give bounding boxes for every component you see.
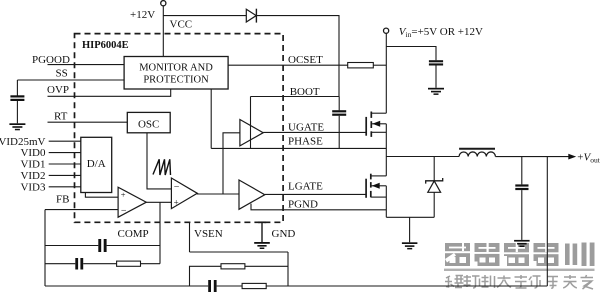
wire OCSET left [228, 64, 348, 66]
wire monitor to phase vertical [210, 89, 212, 148]
wire VSEN vertical [189, 222, 191, 252]
svg-text:FB: FB [56, 194, 69, 206]
svg-text:OCSET: OCSET [288, 54, 323, 66]
svg-text:−: − [121, 205, 127, 216]
wire Vout sense vertical [546, 157, 548, 286]
wire switch node horizontal [386, 156, 459, 158]
wire SS [17, 79, 124, 81]
wire D/A output [85, 193, 118, 198]
resistor OCSET [348, 63, 374, 68]
wire output [495, 156, 569, 158]
svg-text:−: − [174, 182, 180, 193]
resistor bottom line [242, 283, 266, 288]
wire RT [48, 121, 128, 123]
watermark underline [444, 269, 595, 271]
wire lower branch right [245, 265, 288, 267]
capacitor comp branch2 [75, 258, 83, 270]
svg-text:LGATE: LGATE [288, 180, 323, 192]
buffer UGATE driver [240, 120, 263, 146]
block OSC [127, 112, 170, 132]
wire comp branch2 right [141, 263, 161, 265]
ground output cap [514, 240, 530, 247]
ground GND pin [254, 222, 270, 249]
svg-text:VCC: VCC [170, 19, 193, 31]
capacitor bootstrap [332, 97, 346, 149]
diode D2 schottky [426, 157, 443, 218]
inductor L1 [459, 149, 495, 157]
svg-text:MONITOR AND: MONITOR AND [139, 63, 213, 74]
watermark line2 [445, 275, 593, 289]
svg-text:RT: RT [54, 111, 68, 123]
wire OVP [48, 89, 171, 96]
wire OCSET right [373, 64, 386, 66]
wire switch node vertical [385, 124, 387, 176]
svg-text:VSEN: VSEN [194, 228, 223, 240]
svg-text:PHASE: PHASE [288, 136, 323, 148]
capacitor output [515, 157, 528, 240]
wire FB [45, 209, 118, 211]
ground soft-start [9, 123, 25, 130]
resistor comp branch2 [117, 261, 141, 266]
transistor Q2 lower MOSFET [366, 174, 386, 198]
svg-text:+: + [121, 189, 126, 199]
svg-text:VID2: VID2 [20, 170, 45, 182]
wire UGATE [263, 131, 366, 133]
svg-text:UGATE: UGATE [288, 122, 324, 134]
wire lower branch left [190, 266, 222, 286]
svg-text:D/A: D/A [87, 158, 106, 170]
wire PGOOD [48, 64, 125, 66]
arrow output [568, 154, 576, 160]
wire VID1 [49, 163, 81, 165]
wire comp branch1 right [107, 245, 160, 247]
wire comp branch2 mid [83, 263, 116, 265]
resistor sense branch [221, 264, 245, 269]
svg-text:GND: GND [272, 228, 296, 240]
block MONITOR AND PROTECTION [124, 57, 228, 90]
capacitor bottom line [208, 280, 216, 292]
wire to upper driver [223, 133, 240, 194]
svg-text:VID25mV: VID25mV [0, 136, 46, 148]
wire bottom line right [266, 285, 547, 287]
svg-text:OSC: OSC [138, 119, 159, 131]
wire comp branch1 left [45, 245, 98, 247]
wire PWM output [197, 193, 239, 195]
svg-text:PGND: PGND [288, 199, 318, 211]
svg-text:+: + [174, 198, 179, 208]
ground power stage [402, 217, 418, 249]
wire PHASE [211, 147, 386, 149]
wire BOOT vertical through driver [250, 97, 252, 149]
wire diode to boot corner [256, 16, 339, 97]
wire LGATE [265, 193, 366, 195]
wire VID2 [49, 174, 81, 176]
terminal +12V [161, 1, 166, 6]
wire VSEN upper branch [190, 251, 289, 253]
terminal Vin [384, 28, 389, 33]
wire VID0 [49, 152, 81, 154]
watermark logo line1 [445, 243, 595, 267]
svg-text:SS: SS [56, 68, 68, 80]
IC dashed boundary HIP6004E [75, 34, 284, 223]
capacitor Vin decoupling [429, 60, 443, 88]
op-amp error amplifier [118, 187, 146, 217]
wire Vin vertical [385, 33, 387, 113]
wire bottom line left [45, 285, 208, 287]
wire +12V to diode [163, 15, 246, 17]
block D/A [81, 137, 112, 192]
svg-text:COMP: COMP [118, 228, 149, 240]
ground Vin cap [428, 88, 444, 95]
wire bottom rail [386, 216, 434, 218]
sawtooth waveform symbol [153, 159, 171, 175]
svg-text:VID3: VID3 [20, 181, 46, 193]
svg-text:OVP: OVP [47, 84, 69, 96]
capacitor soft-start [10, 80, 24, 123]
wire COMP vertical [159, 202, 161, 263]
wire bottom line mid [217, 285, 243, 287]
wire VID3 [49, 186, 81, 188]
wire OSC to comparator [147, 133, 171, 189]
svg-text:VID1: VID1 [20, 159, 45, 171]
svg-text:+Vout: +Vout [577, 152, 600, 165]
wire error amp output [146, 201, 171, 203]
wire VID25mV [49, 140, 81, 142]
wire FB vertical [44, 210, 46, 286]
wire right vertical of sense network [287, 252, 289, 286]
buffer LGATE driver [239, 180, 265, 209]
transistor Q1 upper MOSFET [366, 112, 386, 137]
wire BOOT pin [251, 96, 340, 98]
capacitor comp branch1 [98, 239, 106, 252]
svg-text:VID0: VID0 [20, 147, 46, 159]
diode D1 boot diode [246, 9, 256, 23]
svg-text:Vin=+5V OR +12V: Vin=+5V OR +12V [399, 26, 483, 39]
svg-text:PROTECTION: PROTECTION [143, 75, 209, 86]
wire lower source vertical [385, 186, 387, 218]
svg-text:+12V: +12V [130, 9, 155, 21]
wire VCC vertical [162, 6, 164, 57]
op-amp PWM comparator [171, 178, 197, 209]
wire PGND [251, 204, 386, 210]
svg-text:BOOT: BOOT [290, 86, 320, 98]
svg-text:HIP6004E: HIP6004E [82, 40, 129, 51]
wire comp branch2 left [45, 263, 75, 265]
wire Vin branch to cap [386, 47, 436, 61]
